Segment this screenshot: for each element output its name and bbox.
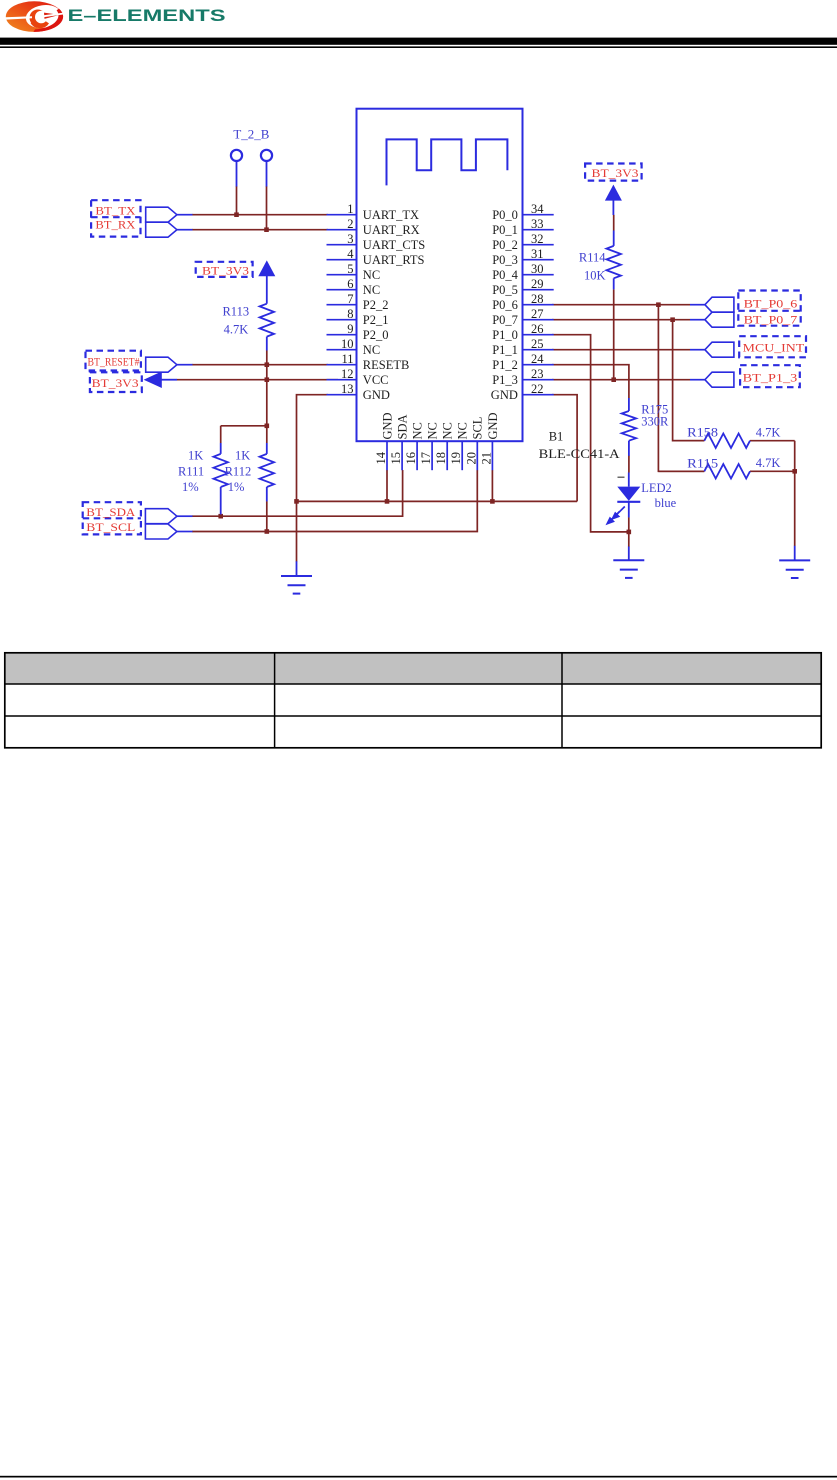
svg-text:BT_SDA: BT_SDA [86,505,135,519]
wire R158 left lead [673,440,705,442]
svg-text:12: 12 [341,367,354,381]
svg-text:34: 34 [531,202,544,216]
connector pentagon BT_RX [146,222,177,237]
pin 21 GND (bottom) [479,412,499,470]
wire GND pin13 down to ground [297,395,329,562]
pin 14 GND (bottom) [374,412,394,470]
pin 25 P1_1 (right) [492,337,554,357]
resistor R113 4.7K [266,276,268,351]
pin 34 P0_0 (right) [492,202,554,222]
svg-text:R115: R115 [687,457,718,471]
label box BT_RESET# [86,351,141,371]
pin 9 P2_0 (left) [327,322,389,342]
svg-text:4.7K: 4.7K [756,426,781,440]
pin 26 P1_0 (right) [492,322,554,342]
wire net BT_RX (pin2 row) [192,229,328,231]
junction R111/BT_SDA [218,514,223,519]
wire pin14 GND drop [386,470,388,501]
table outer border [5,653,821,748]
pin 27 P0_7 (right) [492,307,554,327]
junction P0_6 branch [656,302,661,307]
svg-text:B1: B1 [549,429,564,443]
svg-text:1K: 1K [188,449,203,463]
resistor R158 4.7K [704,434,750,448]
junction pin21/GND bus [490,499,495,504]
pin 1 UART_TX (left) [327,202,420,222]
header rule thick [0,38,837,45]
svg-text:4.7K: 4.7K [224,323,249,337]
wire R175 to LED anode [628,456,630,473]
wire right ground rail vertical [794,441,796,546]
pin 3 UART_CTS (left) [327,232,426,252]
svg-text:2: 2 [347,217,353,231]
svg-text:UART_RX: UART_RX [363,223,420,237]
svg-text:BLE-CC41-A: BLE-CC41-A [539,447,620,461]
wire R112 top drop [266,426,268,443]
pin 7 P2_2 (left) [327,292,389,312]
svg-text:RESETB: RESETB [363,358,410,372]
svg-text:27: 27 [531,307,544,321]
resistor R114 10K [613,231,615,290]
svg-text:4.7K: 4.7K [756,456,781,470]
pin 29 P0_5 (right) [492,277,554,297]
wire R112 bottom to BT_SCL [266,501,268,531]
svg-text:P0_5: P0_5 [492,283,518,297]
label box MCU_INT [739,336,806,357]
pin 30 P0_4 (right) [492,262,554,282]
svg-text:11: 11 [341,352,353,366]
connector pentagon BT_SDA [145,509,177,524]
svg-text:NC: NC [363,268,380,282]
svg-text:10: 10 [341,337,354,351]
wire P0_6 branch down to R115 [658,305,704,472]
svg-text:E–ELEMENTS: E–ELEMENTS [68,6,226,25]
resistor R111 1K 1% [220,443,222,515]
LED2 emission arrows [607,507,625,524]
svg-text:R111: R111 [178,465,204,479]
svg-text:R112: R112 [225,465,252,479]
svg-text:21: 21 [479,452,493,465]
junction at R112 top corner [265,424,270,429]
company logo [6,1,65,32]
connector pentagon BT_P0_6 [705,297,734,312]
connector stub blue BT_RESET# [177,364,193,366]
wire net BT_TX (pin1 row) [192,214,328,216]
svg-text:P1_3: P1_3 [492,373,518,387]
LED LED2 blue [617,473,640,518]
wire net BT_SCL to pin20 [192,470,477,532]
svg-text:26: 26 [531,322,544,336]
svg-text:3: 3 [347,232,353,246]
svg-text:17: 17 [419,452,433,465]
wire net P0_7 to connector [552,319,690,321]
svg-text:P1_2: P1_2 [492,358,518,372]
junction P0_7 branch [670,317,675,322]
table row line 1 [4,683,822,685]
junction R114/P1_3 [611,377,616,382]
svg-text:VCC: VCC [363,373,389,387]
table header row (gray) [5,653,821,684]
label box BT_P1_3 [740,365,800,387]
ground (left, under R111/R112 net) [296,561,298,576]
svg-text:24: 24 [531,352,544,366]
svg-text:UART_RTS: UART_RTS [363,253,425,267]
pin 33 P0_1 (right) [492,217,554,237]
svg-text:33: 33 [531,217,544,231]
connector pentagon BT_SCL [145,524,177,539]
power BT_3V3 arrow (above R113) [258,260,275,276]
pin 12 VCC (left) [327,367,389,387]
op IC B1 BLE-CC41-A body [357,109,523,442]
table row line 2 [4,715,822,717]
label box BT_TX / BT_RX [91,200,140,236]
footer rule [0,1476,837,1478]
svg-text:P0_3: P0_3 [492,253,518,267]
svg-text:29: 29 [531,277,544,291]
svg-text:NC: NC [363,343,380,357]
svg-text:32: 32 [531,232,544,246]
svg-text:SCL: SCL [471,417,485,440]
svg-text:MCU_INT: MCU_INT [743,341,805,355]
svg-text:BT_P1_3: BT_P1_3 [743,370,798,384]
pin 10 NC (left) [327,337,381,357]
junction on BT_TX at testpoint [234,212,239,217]
svg-text:1: 1 [347,202,353,216]
svg-text:GND: GND [380,412,394,439]
svg-text:20: 20 [464,452,478,465]
svg-text:P2_0: P2_0 [363,328,389,342]
connector stub blue BT_P0_7 [690,319,705,321]
pin 2 UART_RX (left) [327,217,420,237]
connector stub blue MCU_INT [690,349,705,351]
label box BT_3V3 (VCC) [90,372,142,392]
wire net P1_3 to connector [552,379,690,381]
pin 31 P0_3 (right) [492,247,554,267]
wire horizontal to R111 top [221,425,267,427]
wire net P1_0 to LED cathode node [552,335,629,532]
wire testpoint stem left [236,186,238,215]
label box BT_3V3 (top right) [585,164,642,181]
svg-text:16: 16 [404,452,418,465]
wire R114 bottom to P1_3 [613,289,615,379]
svg-text:18: 18 [434,452,448,465]
wire R115 left lead [658,470,704,472]
pin 4 UART_RTS (left) [327,247,425,267]
svg-text:1%: 1% [182,480,199,494]
wire GND bus up to pin22 [552,395,577,502]
wire net P1_2 to R175 [552,365,629,398]
svg-text:13: 13 [341,382,354,396]
pin 22 GND (right) [491,382,554,402]
svg-text:BT_SCL: BT_SCL [86,520,135,534]
connector stub blue BT_SCL [177,531,193,533]
svg-text:R158: R158 [687,425,718,439]
wire pin21 GND drop [491,470,493,501]
header rule thin [0,46,837,48]
wire LED cathode down to ground [628,517,630,547]
svg-text:19: 19 [449,452,463,465]
connector pentagon BT_RESET# [146,357,177,372]
svg-text:BT_3V3: BT_3V3 [202,264,249,278]
svg-text:P1_0: P1_0 [492,328,518,342]
connector pentagon MCU_INT [705,342,734,357]
svg-text:P0_2: P0_2 [492,238,518,252]
svg-text:BT_3V3: BT_3V3 [592,166,639,180]
junction pin14/GND bus [385,499,390,504]
svg-text:NC: NC [363,283,380,297]
wire net P1_1 / MCU_INT [552,349,690,351]
junction on BT_RX at testpoint [264,227,269,232]
connector stub blue BT_P0_6 [690,304,705,306]
pin 28 P0_6 (right) [492,292,554,312]
pin 15 SDA (bottom) [389,414,409,470]
svg-text:31: 31 [531,247,544,261]
power BT_3V3 left arrow (VCC) [144,371,162,388]
svg-text:P0_7: P0_7 [492,313,518,327]
connector stub blue BT_SDA [177,515,193,517]
junction R113/RESETB [265,362,270,367]
junction R115/ground rail [792,469,797,474]
svg-text:BT_P0_6: BT_P0_6 [744,297,798,311]
svg-text:5: 5 [347,262,353,276]
pin 19 NC (bottom) [449,422,469,470]
svg-text:P0_4: P0_4 [492,268,518,282]
junction GND bus left [294,499,299,504]
pin 6 NC (left) [327,277,381,297]
wire net BT_3V3 to VCC (pin12 row) [177,379,338,381]
svg-text:23: 23 [531,367,544,381]
label box BT_P0_6 / BT_P0_7 [738,291,800,326]
wire R113 lower vertical crossing RESETB/VCC [266,351,268,426]
testpoint circle right [261,150,272,161]
svg-text:GND: GND [363,388,390,402]
svg-text:25: 25 [531,337,544,351]
svg-text:NC: NC [441,422,455,439]
connector stub blue BT_RX [177,229,193,231]
svg-text:10K: 10K [584,269,606,283]
svg-text:P0_0: P0_0 [492,208,518,222]
svg-text:SDA: SDA [395,414,409,439]
junction LED cathode node [627,530,632,535]
ground (right, under R158/R115) [794,546,796,561]
svg-text:UART_TX: UART_TX [363,208,419,222]
pin 5 NC (left) [327,262,381,282]
svg-text:NC: NC [456,422,470,439]
svg-text:1%: 1% [228,480,245,494]
svg-text:BT_RESET#: BT_RESET# [88,355,140,369]
resistor R115 4.7K [704,464,750,478]
wire R111 top drop [220,426,222,443]
wire R114 top segment [613,215,615,231]
wire net BT_SDA to pin15 [192,470,403,516]
svg-text:8: 8 [347,307,353,321]
pin 32 P0_2 (right) [492,232,554,252]
pin 16 NC (bottom) [404,422,424,470]
wire P0_7 branch down to R158 [673,320,705,441]
resistor R112 1K 1% [266,443,268,501]
svg-text:P2_1: P2_1 [363,313,389,327]
svg-text:P0_6: P0_6 [492,298,518,312]
testpoint circle left [231,150,242,161]
pin 18 NC (bottom) [434,422,454,470]
svg-text:GND: GND [486,412,500,439]
svg-text:9: 9 [347,322,353,336]
ground (under LED2) [628,547,630,561]
svg-text:BT_RX: BT_RX [95,218,135,232]
svg-text:P0_1: P0_1 [492,223,518,237]
svg-text:P1_1: P1_1 [492,343,518,357]
svg-text:30: 30 [531,262,544,276]
connector pentagon BT_P0_7 [705,312,734,327]
svg-text:GND: GND [491,388,518,402]
svg-text:NC: NC [426,422,440,439]
svg-text:1K: 1K [235,449,250,463]
connector stub blue BT_TX [177,214,193,216]
svg-text:7: 7 [347,292,353,306]
svg-text:14: 14 [374,451,388,464]
wire GND horizontal bus [297,500,578,502]
table column divider 2 [561,652,563,748]
pin 24 P1_2 (right) [492,352,554,372]
svg-text:BT_TX: BT_TX [95,204,135,218]
wire net BT_RESET# (pin11 row) [192,364,328,366]
connector pentagon BT_P1_3 [705,372,734,387]
svg-text:T_2_B: T_2_B [233,128,269,142]
svg-text:15: 15 [389,452,403,465]
wire R111 bottom to BT_SDA [220,514,222,516]
pin 23 P1_3 (right) [492,367,554,387]
svg-text:22: 22 [531,382,544,396]
junction R113/VCC [265,377,270,382]
pin 20 SCL (bottom) [464,417,484,471]
svg-text:UART_CTS: UART_CTS [363,238,425,252]
connector pentagon BT_TX [146,207,177,222]
pin 8 P2_1 (left) [327,307,389,327]
resistor R175 330R [628,398,630,456]
pin 13 GND (left) [327,382,390,402]
svg-text:R114: R114 [579,250,606,264]
svg-text:P2_2: P2_2 [363,298,389,312]
svg-text:blue: blue [655,496,677,510]
wire R158 right to ground rail [750,440,795,442]
svg-text:R113: R113 [222,304,249,318]
svg-text:BT_P0_7: BT_P0_7 [744,312,798,326]
svg-text:LED2: LED2 [641,481,672,495]
wire R115 right to ground rail [750,470,795,472]
svg-text:NC: NC [411,422,425,439]
label box BT_SDA / BT_SCL [83,502,141,534]
wire testpoint stem right [266,186,268,230]
connector stub blue BT_P1_3 [690,379,705,381]
wire net P0_6 to connector [552,304,690,306]
svg-text:28: 28 [531,292,544,306]
pin 11 RESETB (left) [327,352,410,372]
svg-text:4: 4 [347,247,354,261]
svg-text:330R: 330R [641,415,669,429]
label box BT_3V3 (above R113) [196,262,253,277]
junction R112/BT_SCL [265,529,270,534]
svg-text:6: 6 [347,277,353,291]
antenna symbol inside B1 [387,139,508,185]
pin 17 NC (bottom) [419,422,439,470]
table column divider 1 [274,652,276,748]
power BT_3V3 arrow (above R114) [605,185,622,201]
svg-text:BT_3V3: BT_3V3 [92,376,139,390]
